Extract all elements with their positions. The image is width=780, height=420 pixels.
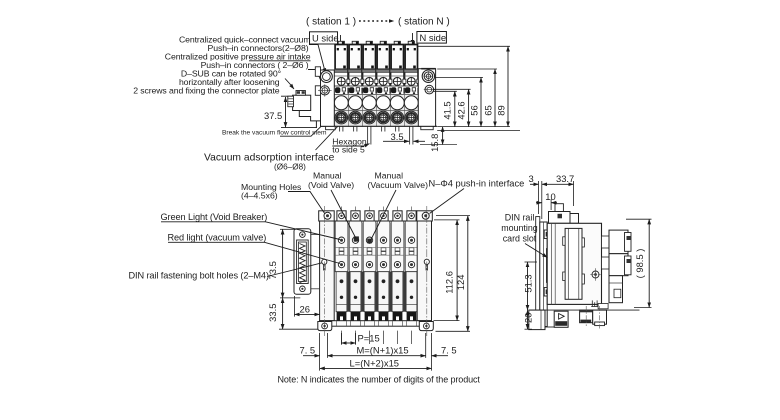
svg-text:33.7: 33.7 xyxy=(556,173,574,184)
node manual knob vacuum valve station3 xyxy=(367,239,372,244)
right end plate xyxy=(417,221,431,321)
svg-text:7. 5: 7. 5 xyxy=(441,345,457,356)
left end plate xyxy=(320,221,335,321)
DIN clamp square upper xyxy=(544,230,551,239)
DIN clamp square lower xyxy=(544,288,551,297)
wire leader push-in 2-o6 xyxy=(308,70,324,88)
dimension 65 line xyxy=(494,69,496,127)
svg-text:Note: N indicates the number o: Note: N indicates the number of digits o… xyxy=(278,375,481,385)
station 3 xyxy=(363,207,378,345)
right lower section xyxy=(609,276,623,303)
dimension 20 xyxy=(522,310,533,329)
station 4 xyxy=(376,41,392,131)
right end plate xyxy=(418,69,435,127)
node manual knob void valve station2 xyxy=(354,236,359,241)
right foot xyxy=(419,322,433,331)
svg-text:Manual: Manual xyxy=(375,171,404,181)
node label DIN rail mounting card slot xyxy=(501,212,538,243)
dimension M xyxy=(328,355,426,357)
wire leader manual vacuum xyxy=(371,190,397,241)
wire leader card slot xyxy=(525,244,548,258)
wire N side down arrow xyxy=(412,33,414,45)
body bottom strip xyxy=(321,125,438,127)
svg-text:P=15: P=15 xyxy=(358,333,380,344)
station 1 xyxy=(335,207,350,345)
inner valve body xyxy=(565,228,582,299)
svg-text:mounting: mounting xyxy=(501,223,538,233)
top view right dimension lines xyxy=(418,46,520,130)
dimension 51.3 xyxy=(522,262,537,310)
svg-text:7. 5: 7. 5 xyxy=(300,345,316,356)
svg-text:Green Light (Void Breaker): Green Light (Void Breaker) xyxy=(161,212,268,222)
node station header xyxy=(306,17,450,28)
svg-text:56: 56 xyxy=(468,105,479,115)
connector body xyxy=(297,240,309,284)
node N side box xyxy=(413,32,447,46)
svg-text:65: 65 xyxy=(482,105,493,115)
svg-text:( 98.5 ): ( 98.5 ) xyxy=(634,249,645,279)
dimension 33.5 xyxy=(267,298,318,329)
svg-text:3: 3 xyxy=(529,173,534,184)
long stems station3 and station6 xyxy=(368,132,413,145)
svg-text:( station N ): ( station N ) xyxy=(398,17,450,28)
node U side box xyxy=(310,32,341,47)
wire leader quick-connect vacuum xyxy=(309,45,326,74)
DIN bolt hole left M4 xyxy=(322,252,327,276)
left o6 circle xyxy=(320,86,329,95)
dimension 3.5 xyxy=(383,131,425,142)
DIN bolt hole right M4 xyxy=(424,252,429,276)
dimension L xyxy=(320,367,432,369)
bottom end tabs xyxy=(326,126,336,129)
svg-text:20: 20 xyxy=(522,313,533,323)
dimension 56 line xyxy=(480,77,482,126)
right fitting block upper xyxy=(609,230,628,254)
station 4 xyxy=(377,207,392,345)
wire leader manual void xyxy=(331,190,356,239)
svg-text:DIN rail: DIN rail xyxy=(505,212,535,222)
wire U side down arrow xyxy=(340,35,342,47)
node top view manifold xyxy=(288,41,520,152)
right o6 circle xyxy=(425,85,434,94)
svg-text:Red light (vacuum valve): Red light (vacuum valve) xyxy=(168,232,267,242)
left end plate xyxy=(315,67,334,127)
station 5 xyxy=(391,207,406,345)
DIN card slot detail xyxy=(547,249,554,283)
mounting base line xyxy=(420,144,457,146)
top plug tower xyxy=(555,204,563,212)
svg-text:42.6: 42.6 xyxy=(455,101,466,119)
ext lines xyxy=(539,181,574,219)
DIN rail plate outer xyxy=(536,217,540,328)
wire leader mounting holes xyxy=(288,192,325,215)
D-SUB step to body xyxy=(299,111,320,128)
wire leader green light xyxy=(161,222,340,240)
right mounting tab xyxy=(417,211,433,221)
node top-left label stack xyxy=(133,35,311,96)
end plate xyxy=(540,222,547,327)
body top line xyxy=(320,220,432,222)
svg-text:( station 1 ): ( station 1 ) xyxy=(306,17,356,28)
bottom dimensions P M L xyxy=(300,333,457,371)
svg-text:112.6: 112.6 xyxy=(444,271,455,294)
ext lines xyxy=(320,333,432,371)
svg-text:2 screws and fixing the connec: 2 screws and fixing the connector plate xyxy=(133,86,280,96)
station 1 xyxy=(334,41,350,131)
dimension 3 (side) xyxy=(530,183,539,185)
body to fitting links xyxy=(602,236,610,248)
bottom screw xyxy=(300,286,306,292)
dimension 15.8 xyxy=(429,127,443,152)
comb mark xyxy=(591,300,598,306)
wire leader DIN fastening xyxy=(267,263,322,277)
station 6 xyxy=(405,207,420,345)
svg-text:89: 89 xyxy=(495,105,506,115)
dimension 26 xyxy=(295,296,320,317)
wire leader hexagon xyxy=(332,144,369,146)
svg-text:(4–4.5x6): (4–4.5x6) xyxy=(241,191,278,201)
station 2 xyxy=(349,207,364,345)
left foot xyxy=(529,310,545,330)
wire dotted arrow station1 to stationN xyxy=(359,20,394,22)
bottom middle fitting xyxy=(580,306,593,326)
svg-text:33.5: 33.5 xyxy=(267,304,278,322)
dimension 7.5 right xyxy=(432,355,449,357)
dimension 42.6 line xyxy=(468,89,470,126)
dimension 73.5 xyxy=(267,229,301,298)
main body xyxy=(547,223,601,304)
dimension (98.5) xyxy=(626,219,652,307)
left o8 circle xyxy=(321,71,333,83)
svg-text:3.5: 3.5 xyxy=(391,131,404,142)
svg-text:(Vacuum Valve): (Vacuum Valve) xyxy=(368,180,429,190)
svg-text:15.8: 15.8 xyxy=(429,134,440,152)
svg-text:37.5: 37.5 xyxy=(264,110,282,121)
wire leader D-SUB rotate arrow xyxy=(285,79,294,90)
svg-text:51.3: 51.3 xyxy=(522,274,533,292)
DIN release clip xyxy=(554,311,568,327)
left foot xyxy=(318,322,332,331)
svg-text:N–Φ4 push-in interface: N–Φ4 push-in interface xyxy=(429,178,525,188)
svg-text:DIN rail fastening bolt holes: DIN rail fastening bolt holes (2–M4) xyxy=(129,270,269,280)
dimension 112.6 and 124 right side xyxy=(434,216,471,332)
svg-text:26: 26 xyxy=(300,303,310,314)
end plate center dash-dot lines xyxy=(323,206,325,252)
svg-text:L=(N+2)x15: L=(N+2)x15 xyxy=(350,357,400,368)
svg-text:card slot: card slot xyxy=(503,234,537,244)
svg-text:M=(N+1)x15: M=(N+1)x15 xyxy=(357,345,409,356)
svg-text:124: 124 xyxy=(455,275,466,291)
small box bottom right of body xyxy=(598,304,608,309)
bottom rail bar xyxy=(320,321,432,327)
D-SUB connector front xyxy=(294,229,311,295)
side screw xyxy=(592,271,599,278)
left mounting tab xyxy=(319,211,335,221)
baseline xyxy=(529,309,640,311)
right fitting block lower xyxy=(609,254,628,276)
station 3 xyxy=(362,41,378,131)
svg-text:(Void Valve): (Void Valve) xyxy=(308,180,354,190)
svg-text:Manual: Manual xyxy=(313,171,342,181)
right o8 circle xyxy=(422,70,434,82)
wire leader push-in interface xyxy=(430,189,465,214)
wire leader break stem xyxy=(280,122,326,137)
node front view manifold xyxy=(267,206,470,371)
station 6 xyxy=(404,41,420,131)
D-SUB connector top view xyxy=(288,91,321,128)
top dims xyxy=(529,173,575,219)
svg-text:41.5: 41.5 xyxy=(442,101,453,119)
svg-text:10: 10 xyxy=(545,191,555,202)
station 2 xyxy=(348,41,364,131)
station 5 xyxy=(390,41,406,131)
dimension 41.5 line xyxy=(454,91,456,126)
wire leader red light xyxy=(168,242,340,263)
node front view labels xyxy=(129,171,525,281)
pin zig-zag xyxy=(300,244,306,283)
wire leader adsorption interface xyxy=(316,125,340,151)
svg-text:(Ø6–Ø8): (Ø6–Ø8) xyxy=(274,163,306,172)
dimension 7.5 left xyxy=(303,355,320,357)
bottom right fitting xyxy=(593,306,607,329)
dimension 37.5 line xyxy=(281,96,317,127)
svg-text:N side: N side xyxy=(420,32,447,43)
D-SUB to body links xyxy=(311,234,320,236)
svg-text:U side: U side xyxy=(312,33,339,44)
dimension P=15 xyxy=(342,342,356,344)
svg-text:Vacuum adsorption interface: Vacuum adsorption interface xyxy=(204,153,335,164)
wire underline air intake xyxy=(249,60,311,62)
dimension 89 line xyxy=(507,46,509,126)
top screw xyxy=(300,232,306,238)
node side view manifold xyxy=(501,173,651,330)
